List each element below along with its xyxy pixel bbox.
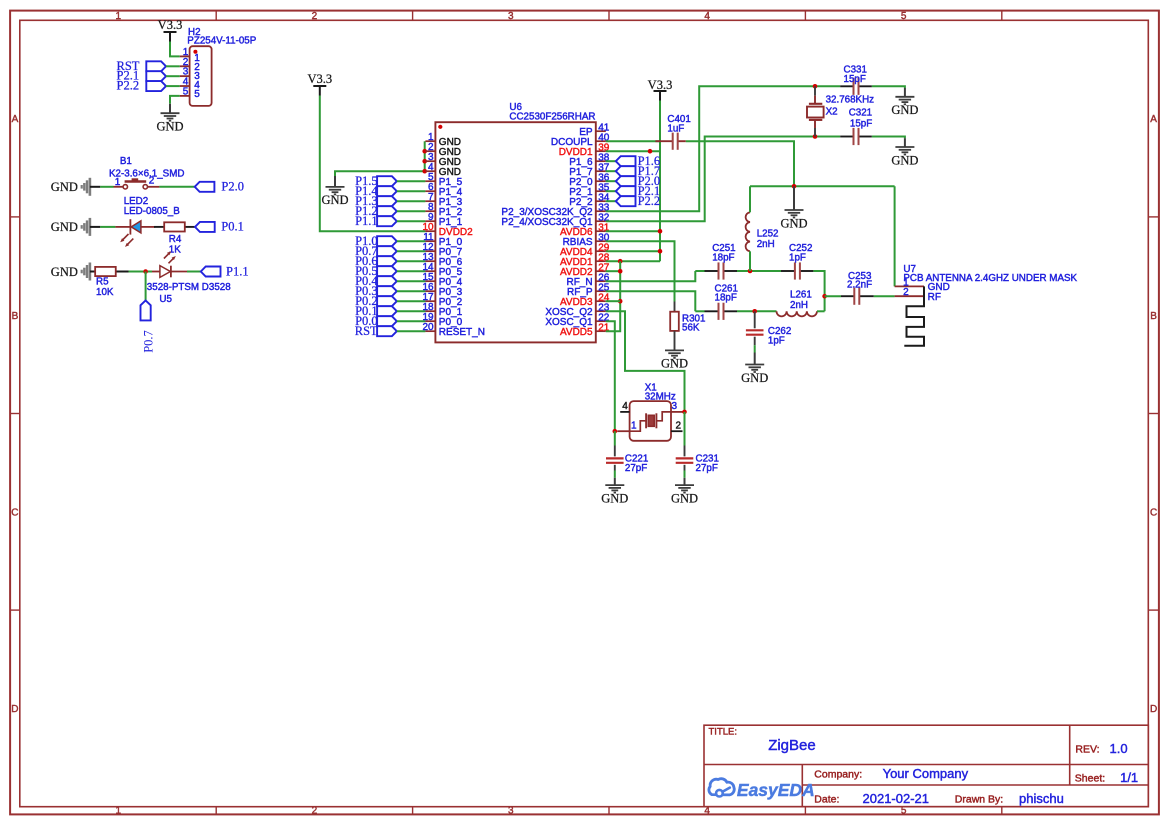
- capacitor C231 27pF: [676, 446, 719, 474]
- svg-text:P0.1: P0.1: [221, 220, 244, 234]
- U6 pin 17 P0_2: [425, 300, 435, 302]
- wire U6 pin 26 RF_N to C251 row: [606, 271, 696, 281]
- svg-text:1pF: 1pF: [789, 252, 806, 263]
- resistor R4 1K: [154, 222, 195, 255]
- net flag P1.7: [616, 164, 660, 178]
- svg-text:GND: GND: [51, 180, 78, 194]
- svg-text:2: 2: [675, 421, 681, 432]
- svg-text:P1.1: P1.1: [226, 265, 249, 279]
- wire U6 pin 33 XOSC32K_Q2 to X2 top: [606, 86, 840, 211]
- wire U6 pin 40 DCOUPL to C401: [606, 140, 660, 142]
- wire U6 pin 32 XOSC32K_Q1 to X2 bottom: [606, 137, 840, 222]
- svg-text:32MHz: 32MHz: [645, 392, 676, 403]
- wire U6 pin 22 XOSC_Q1 to X1 pin 1: [606, 321, 615, 431]
- svg-text:1: 1: [631, 421, 637, 432]
- svg-text:27pF: 27pF: [696, 463, 718, 474]
- wire R5 to junction: [129, 271, 153, 273]
- wire C253 branch: [825, 295, 841, 297]
- inductor L261 2nH: [777, 290, 817, 317]
- net flag P0.0 (U6 pin 19): [355, 314, 397, 328]
- crystal X2 32.768KHz: [807, 86, 874, 136]
- frame column numbers: [116, 11, 907, 817]
- U6 pin 36 P2_0: [596, 180, 606, 182]
- U6 pin 32 P2_4/XOSC32K_Q1: [596, 220, 606, 222]
- wire L252 bottom: [749, 251, 751, 271]
- svg-text:GND: GND: [891, 153, 918, 167]
- wire V3.3 to H2 pin 1: [170, 42, 180, 57]
- ground symbol below C221: [601, 478, 628, 506]
- svg-text:3528-PTSM D3528: 3528-PTSM D3528: [147, 282, 231, 293]
- svg-text:1/1: 1/1: [1120, 770, 1138, 785]
- title block: [704, 725, 1148, 807]
- svg-text:2.2nF: 2.2nF: [847, 280, 872, 291]
- wire P1.1 to U6 pin 9: [397, 220, 426, 222]
- junction AVDD4: [658, 249, 663, 254]
- wire U6 pin 23 XOSC_Q2 to X1 pin 3: [606, 311, 685, 412]
- wire C401 to GND net: [686, 141, 794, 186]
- U6 pin 1 GND: [425, 140, 435, 142]
- svg-text:RESET_N: RESET_N: [439, 327, 485, 338]
- wire P1.3 to U6 pin 7: [397, 200, 426, 202]
- U6 pin 18 P0_1: [425, 310, 435, 312]
- svg-text:GND: GND: [321, 193, 348, 207]
- net flag P0.3 (U6 pin 16): [355, 284, 397, 298]
- net flag P1.0 (U6 pin 11): [355, 234, 397, 248]
- power flag V3.3 (top left): [158, 18, 183, 42]
- wire RST to H2 pin 2: [166, 65, 180, 67]
- resistor R301 56K: [670, 302, 705, 351]
- svg-text:RST: RST: [355, 324, 378, 338]
- wire P0.3 to U6 pin 16: [397, 290, 426, 292]
- junction X1 pin 3: [682, 410, 687, 415]
- svg-text:Date:: Date:: [814, 794, 839, 806]
- svg-text:3: 3: [508, 11, 514, 22]
- svg-text:1pF: 1pF: [768, 336, 785, 347]
- U6 pin 40 DCOUPL: [596, 140, 606, 142]
- net flag P1.6: [616, 154, 660, 168]
- svg-text:GND: GND: [741, 371, 768, 385]
- svg-text:Drawn By:: Drawn By:: [955, 794, 1003, 806]
- LED U5 3528-PTSM D3528: [147, 251, 231, 305]
- capacitor C401 1uF: [655, 114, 690, 150]
- inductor L252 2nH: [746, 212, 779, 251]
- svg-text:15pF: 15pF: [844, 74, 866, 85]
- svg-text:LED-0805_B: LED-0805_B: [124, 206, 181, 217]
- wire junction down to P0.7: [145, 272, 147, 301]
- svg-text:1K: 1K: [169, 244, 181, 255]
- U6 pin 24 AVDD3: [596, 300, 606, 302]
- capacitor C253 2.2nF: [841, 271, 874, 305]
- svg-text:2nH: 2nH: [790, 300, 808, 311]
- wire U6 pin 24 AVDD3: [606, 300, 620, 302]
- U6 pin 2 GND: [425, 150, 435, 152]
- capacitor C251 18pF: [705, 243, 738, 279]
- svg-text:D: D: [11, 704, 18, 715]
- U6 pin 41 EP: [596, 130, 606, 132]
- title block texts: [709, 726, 1139, 806]
- svg-text:2021-02-21: 2021-02-21: [863, 791, 930, 806]
- junction AVDD1: [618, 259, 623, 264]
- svg-text:A: A: [1150, 114, 1157, 125]
- U6 pin 25 RF_P: [596, 290, 606, 292]
- net flag P1.1 (U6 pin 9): [355, 214, 397, 228]
- junction L252 bottom: [748, 269, 753, 274]
- junction AVDD3: [618, 299, 623, 304]
- wire U6 pin 38 to P1.6: [606, 160, 616, 162]
- svg-text:TITLE:: TITLE:: [709, 726, 738, 737]
- junction U6 pin 3: [422, 159, 427, 164]
- U6 pin 21 AVDD5: [596, 330, 606, 332]
- svg-text:GND: GND: [156, 120, 183, 134]
- ground port (R5 row): [51, 263, 100, 281]
- frame row letters: [11, 114, 1157, 715]
- wire C261 row left: [695, 310, 704, 312]
- svg-text:3: 3: [672, 401, 678, 412]
- wire P0.6 to U6 pin 13: [397, 260, 426, 262]
- wire C251 row left: [695, 270, 704, 272]
- net flag P0.2 (U6 pin 17): [355, 294, 397, 308]
- svg-text:REV:: REV:: [1075, 744, 1099, 756]
- svg-text:3: 3: [508, 806, 514, 817]
- svg-text:V3.3: V3.3: [307, 72, 332, 86]
- svg-text:10K: 10K: [96, 287, 114, 298]
- ground symbol right of C321: [891, 138, 918, 167]
- net flag P1.1: [201, 265, 249, 279]
- svg-text:5: 5: [901, 11, 907, 22]
- ground symbol below C262: [741, 353, 768, 385]
- svg-text:EasyEDA: EasyEDA: [737, 780, 815, 800]
- svg-text:V3.3: V3.3: [158, 18, 183, 32]
- U6 pin 19 P0_0: [425, 320, 435, 322]
- svg-text:P2.0: P2.0: [221, 179, 244, 193]
- svg-text:P0.7: P0.7: [141, 330, 155, 353]
- capacitor C221 27pF: [606, 446, 648, 474]
- svg-text:K2-3.6×6.1_SMD: K2-3.6×6.1_SMD: [109, 169, 184, 180]
- wire P1.4 to U6 pin 6: [397, 190, 426, 192]
- wire P0.0 to U6 pin 19: [397, 320, 426, 322]
- svg-text:B: B: [1150, 311, 1157, 322]
- U6 pin 7 P1_3: [425, 200, 435, 202]
- wire GND to B1 pin 1: [100, 186, 113, 188]
- U6 pin 37 P1_7: [596, 170, 606, 172]
- svg-text:L252: L252: [757, 228, 779, 239]
- U6 pin 14 P0_5: [425, 270, 435, 272]
- svg-text:5: 5: [194, 89, 200, 100]
- wire C262 to GND: [754, 345, 756, 352]
- wire U6 pin 29 AVDD4 to V3.3: [606, 250, 660, 252]
- svg-text:ZigBee: ZigBee: [768, 737, 816, 754]
- svg-text:2: 2: [312, 806, 318, 817]
- wire V3.3 vertical to AVDD pins: [659, 101, 661, 262]
- pushbutton B1 K2-3.6x6.1_SMD: [109, 156, 184, 189]
- U6 pin 29 AVDD4: [596, 250, 606, 252]
- wire P0.7 to U6 pin 12: [397, 250, 426, 252]
- svg-text:20: 20: [422, 322, 434, 333]
- svg-text:Sheet:: Sheet:: [1075, 773, 1105, 785]
- svg-text:4: 4: [704, 11, 710, 22]
- U6 pin 34 P2_2: [596, 200, 606, 202]
- junction AVDD6: [658, 229, 663, 234]
- net flag P2.2: [117, 79, 167, 93]
- wire P0.1 to U6 pin 18: [397, 310, 426, 312]
- svg-text:X2: X2: [826, 106, 838, 117]
- U6 pin 22 XOSC_Q1: [596, 320, 606, 322]
- connector H2 PZ254V-11-05P: [180, 27, 257, 106]
- svg-text:C321: C321: [849, 108, 872, 119]
- svg-text:B1: B1: [120, 156, 132, 167]
- ground symbol below C231: [671, 478, 698, 506]
- capacitor C252 1pF: [781, 243, 813, 279]
- svg-text:1: 1: [116, 11, 122, 22]
- wire U6 pin 37 to P1.7: [606, 170, 616, 172]
- wire C253 to U7 RF: [874, 295, 895, 297]
- svg-text:1: 1: [116, 806, 122, 817]
- junction X2 top: [813, 84, 818, 89]
- power flag V3.3 (left of U6): [307, 72, 332, 96]
- wire P1.5 to U6 pin 5: [397, 180, 426, 182]
- svg-text:18pF: 18pF: [712, 252, 734, 263]
- junction C253 branch: [822, 294, 827, 299]
- svg-text:PZ254V-11-05P: PZ254V-11-05P: [187, 36, 256, 47]
- junction AVDD2: [618, 269, 623, 274]
- net flag P0.6 (U6 pin 13): [355, 254, 397, 268]
- U6 pin 5 P1_5: [425, 180, 435, 182]
- U6 pin 6 P1_4: [425, 190, 435, 192]
- wire U6 pin 27 AVDD2: [606, 270, 620, 272]
- U6 pin 23 XOSC_Q2: [596, 310, 606, 312]
- wire U6 pin 34 to P2.2: [606, 200, 616, 202]
- IC U6 CC2530F256RHAR: [422, 102, 609, 342]
- net flag P1.3 (U6 pin 7): [355, 194, 397, 208]
- svg-text:2: 2: [903, 287, 909, 298]
- wire U5 to P1.1: [187, 271, 201, 273]
- svg-text:GND: GND: [661, 357, 688, 371]
- svg-text:P2.2: P2.2: [638, 194, 661, 208]
- net flag P0.5 (U6 pin 14): [355, 264, 397, 278]
- wire GND net horizontal: [750, 185, 895, 187]
- U6 pin 26 RF_N: [596, 280, 606, 282]
- svg-text:U5: U5: [159, 294, 172, 305]
- svg-text:2nH: 2nH: [757, 239, 775, 250]
- ground port (LED2 row): [51, 218, 100, 236]
- net flag RST: [117, 59, 167, 73]
- U6 pin 4 GND: [425, 170, 435, 172]
- net flag P2.0: [616, 174, 660, 188]
- wire U6 pin 39 DVDD1 to V3.3: [606, 150, 660, 152]
- svg-text:4: 4: [622, 401, 628, 412]
- wire U6 pin 36 to P2.0: [606, 180, 616, 182]
- svg-text:GND: GND: [51, 265, 78, 279]
- resistor R5 10K: [91, 267, 138, 298]
- svg-text:GND: GND: [51, 220, 78, 234]
- junction X1 pin 1: [613, 429, 618, 434]
- svg-text:18pF: 18pF: [715, 293, 737, 304]
- net flag P1.5 (U6 pin 5): [355, 174, 397, 188]
- wire GND net to U7 pin 1: [894, 186, 896, 286]
- U6 pin 15 P0_4: [425, 280, 435, 282]
- wire U6 pin 35 to P2.1: [606, 190, 616, 192]
- junction node P0.7: [143, 269, 148, 274]
- U6 pin 9 P1_1: [425, 220, 435, 222]
- wire X2 top to GND: [872, 86, 905, 88]
- svg-text:2: 2: [312, 11, 318, 22]
- U6 pin 38 P1_6: [596, 160, 606, 162]
- net flag P0.4 (U6 pin 15): [355, 274, 397, 288]
- U6 pin 10 DVDD2: [425, 230, 435, 232]
- ground port (B1 row): [51, 178, 100, 196]
- svg-text:GND: GND: [891, 103, 918, 117]
- net flag P2.0: [195, 179, 244, 193]
- antenna U7 PCB ANTENNA 2.4GHZ UNDER MASK: [895, 264, 1078, 346]
- U6 pin 3 GND: [425, 160, 435, 162]
- svg-text:phischu: phischu: [1019, 791, 1064, 806]
- U6 pin 16 P0_3: [425, 290, 435, 292]
- U6 pin 28 AVDD1: [596, 260, 606, 262]
- net flag P0.1 (U6 pin 18): [355, 304, 397, 318]
- wire C252 to right vertical: [813, 271, 824, 311]
- svg-text:AVDD5: AVDD5: [560, 327, 593, 338]
- capacitor C321 15pF: [840, 108, 872, 146]
- power flag V3.3 (right of U6): [648, 78, 673, 100]
- U6 pin 8 P1_2: [425, 210, 435, 212]
- svg-text:CC2530F256RHAR: CC2530F256RHAR: [509, 112, 595, 123]
- svg-text:15pF: 15pF: [850, 119, 872, 130]
- svg-text:RF: RF: [928, 292, 941, 303]
- svg-text:V3.3: V3.3: [648, 78, 673, 92]
- junction C262 top: [752, 309, 757, 314]
- wire X1 pin 1 down to C221: [614, 431, 616, 445]
- wire P0.5 to U6 pin 14: [397, 270, 426, 272]
- net flag P1.2 (U6 pin 8): [355, 204, 397, 218]
- svg-text:P2.2: P2.2: [117, 79, 140, 93]
- wire P2.1 to H2 pin 3: [166, 75, 180, 77]
- capacitor C262 1pF: [746, 311, 791, 346]
- U6 pin 27 AVDD2: [596, 270, 606, 272]
- svg-text:Company:: Company:: [814, 769, 862, 781]
- wire P1.0 to U6 pin 11: [397, 240, 426, 242]
- wire RST to U6 pin 20: [397, 330, 426, 332]
- ground symbol right of C331: [891, 88, 918, 117]
- wire P0.4 to U6 pin 15: [397, 280, 426, 282]
- wire GND net to L252 top: [749, 186, 751, 212]
- U6 pin 20 RESET_N: [425, 330, 435, 332]
- ground symbol left of U6: [321, 176, 348, 207]
- svg-text:C: C: [11, 507, 18, 518]
- svg-text:GND: GND: [671, 491, 698, 505]
- U6 pin 12 P0_7: [425, 250, 435, 252]
- wire C251 to C252: [737, 270, 781, 272]
- svg-text:GND: GND: [601, 491, 628, 505]
- svg-text:C: C: [1150, 507, 1157, 518]
- svg-text:Your Company: Your Company: [883, 766, 969, 781]
- ground symbol below R301: [661, 350, 688, 370]
- svg-text:B: B: [12, 311, 19, 322]
- wire U6 pin 28 AVDD1 to V3.3: [606, 260, 660, 262]
- wire V3.3 to U6 pin 10 DVDD2: [320, 96, 426, 232]
- wire L261 to right vertical: [817, 310, 825, 312]
- svg-text:1.0: 1.0: [1110, 741, 1128, 756]
- wire U6 pins 1-4 GND bus: [335, 141, 425, 176]
- svg-text:27pF: 27pF: [625, 463, 647, 474]
- svg-text:P1.1: P1.1: [355, 214, 378, 228]
- junction X2 bottom: [813, 134, 818, 139]
- net flag P0.7 (U6 pin 12): [355, 244, 397, 258]
- junction U6 pin 2: [422, 149, 427, 154]
- capacitor C261 18pF: [705, 283, 738, 320]
- wire H2 pin 5 to GND: [170, 96, 180, 104]
- net flag P1.4 (U6 pin 6): [355, 184, 397, 198]
- LED LED2 LED-0805_B: [115, 196, 180, 247]
- svg-text:D: D: [1150, 704, 1157, 715]
- net flag P0.1: [195, 220, 244, 234]
- wire AVDD bus vertical: [606, 261, 620, 331]
- net flag P2.2: [616, 194, 660, 208]
- junction DVDD1: [648, 149, 653, 154]
- ground symbol below H2: [156, 104, 183, 134]
- net flag RST (U6 pin 20): [355, 324, 397, 338]
- junction GND net: [792, 184, 797, 189]
- wire P2.2 to H2 pin 4: [166, 85, 180, 87]
- svg-text:R5: R5: [96, 276, 109, 287]
- capacitor C331 15pF: [840, 64, 872, 95]
- svg-text:5: 5: [183, 86, 189, 97]
- ground symbol middle: [780, 186, 807, 230]
- net flag P0.7: [141, 300, 156, 352]
- svg-text:PCB ANTENNA 2.4GHZ UNDER MASK: PCB ANTENNA 2.4GHZ UNDER MASK: [903, 273, 1077, 284]
- svg-text:56K: 56K: [682, 322, 700, 333]
- wire P1.2 to U6 pin 8: [397, 210, 426, 212]
- wire U6 pin 30 RBIAS to R301: [606, 241, 675, 301]
- wire X1 pin 3 down to C231: [684, 412, 686, 446]
- U6 pin 39 DVDD1: [596, 150, 606, 152]
- U6 pin 11 P1_0: [425, 240, 435, 242]
- wire C231 to GND: [684, 471, 686, 478]
- wire B1 pin 2 to P2.0: [159, 186, 194, 188]
- svg-text:R4: R4: [169, 234, 182, 245]
- svg-text:32.768KHz: 32.768KHz: [826, 95, 875, 106]
- U6 pin 31 AVDD6: [596, 230, 606, 232]
- svg-text:1uF: 1uF: [667, 124, 684, 135]
- crystal X1 32MHz: [617, 383, 682, 441]
- wire C261 to L261: [737, 310, 777, 312]
- wire GND to LED2: [100, 226, 115, 228]
- svg-text:GND: GND: [780, 216, 807, 230]
- wire U6 pin 31 AVDD6 to V3.3: [606, 230, 660, 232]
- svg-text:L261: L261: [790, 290, 812, 301]
- net flag P2.1: [117, 69, 167, 83]
- net flag P2.1: [616, 184, 660, 198]
- wire X2 bottom to GND: [872, 137, 905, 139]
- junction U6 pin 4: [422, 169, 427, 174]
- U6 pin 30 RBIAS: [596, 240, 606, 242]
- U6 pin 13 P0_6: [425, 260, 435, 262]
- svg-text:A: A: [12, 114, 19, 125]
- U6 pin 35 P2_1: [596, 190, 606, 192]
- wire C221 to GND: [614, 471, 616, 478]
- U6 pin 33 P2_3/XOSC32K_Q2: [596, 210, 606, 212]
- wire P0.2 to U6 pin 17: [397, 300, 426, 302]
- EasyEDA logo: [709, 779, 815, 801]
- wire U6 pin 25 RF_P to C261 row: [606, 291, 696, 311]
